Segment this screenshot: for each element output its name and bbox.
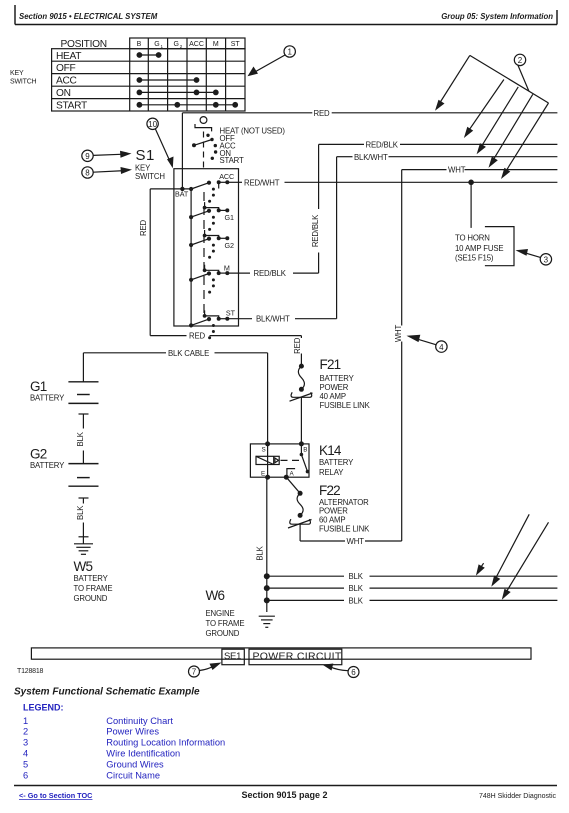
svg-text:LEGEND:: LEGEND: bbox=[23, 703, 64, 713]
svg-text:RED: RED bbox=[139, 219, 148, 236]
svg-text:10 AMP FUSE: 10 AMP FUSE bbox=[455, 244, 503, 253]
svg-text:BLK/WHT: BLK/WHT bbox=[354, 153, 388, 162]
svg-text:TO HORN: TO HORN bbox=[455, 233, 490, 242]
svg-text:BLK: BLK bbox=[256, 545, 265, 560]
svg-text:M: M bbox=[224, 263, 230, 272]
svg-text:F21: F21 bbox=[320, 357, 341, 372]
svg-text:E: E bbox=[261, 470, 265, 477]
svg-text:GROUND: GROUND bbox=[206, 629, 240, 638]
svg-text:KEY: KEY bbox=[10, 70, 24, 77]
svg-text:(SE15 F15): (SE15 F15) bbox=[455, 254, 494, 263]
svg-text:ACC: ACC bbox=[189, 41, 204, 48]
svg-text:HEAT: HEAT bbox=[56, 51, 81, 62]
svg-text:G2: G2 bbox=[30, 447, 47, 462]
svg-text:TO FRAME: TO FRAME bbox=[206, 619, 245, 628]
svg-text:Section 9015 • ELECTRICAL SYST: Section 9015 • ELECTRICAL SYSTEM bbox=[19, 12, 158, 21]
svg-text:G1: G1 bbox=[225, 213, 234, 222]
svg-text:K14: K14 bbox=[319, 443, 342, 458]
svg-text:BLK CABLE: BLK CABLE bbox=[168, 349, 209, 358]
svg-text:ENGINE: ENGINE bbox=[206, 609, 235, 618]
svg-text:ON: ON bbox=[56, 88, 71, 99]
svg-text:10: 10 bbox=[148, 120, 157, 129]
svg-text:POWER: POWER bbox=[320, 383, 349, 392]
svg-text:60 AMP: 60 AMP bbox=[319, 516, 345, 525]
svg-text:T128818: T128818 bbox=[17, 668, 44, 675]
svg-text:WHT: WHT bbox=[448, 166, 466, 175]
svg-text:BLK: BLK bbox=[76, 505, 85, 520]
svg-text:S1: S1 bbox=[136, 147, 155, 164]
svg-text:5: 5 bbox=[23, 759, 28, 769]
svg-text:G2: G2 bbox=[225, 241, 234, 250]
svg-text:BLK: BLK bbox=[76, 431, 85, 446]
svg-text:RED: RED bbox=[314, 109, 331, 118]
svg-text:START: START bbox=[56, 101, 87, 112]
svg-text:ST: ST bbox=[226, 308, 236, 317]
svg-text:3: 3 bbox=[23, 738, 28, 748]
svg-text:9: 9 bbox=[85, 152, 90, 161]
svg-text:RED: RED bbox=[189, 332, 206, 341]
svg-text:GROUND: GROUND bbox=[74, 594, 108, 603]
svg-text:FUSIBLE LINK: FUSIBLE LINK bbox=[319, 525, 370, 534]
svg-text:M: M bbox=[213, 41, 219, 48]
svg-text:Continuity Chart: Continuity Chart bbox=[106, 716, 173, 726]
svg-text:BATTERY: BATTERY bbox=[320, 374, 355, 383]
svg-text:3: 3 bbox=[544, 256, 549, 265]
svg-text:Routing Location Information: Routing Location Information bbox=[106, 738, 225, 748]
svg-text:BLK/WHT: BLK/WHT bbox=[256, 315, 290, 324]
svg-text:FUSIBLE LINK: FUSIBLE LINK bbox=[320, 401, 371, 410]
svg-text:POSITION: POSITION bbox=[61, 39, 107, 50]
svg-text:8: 8 bbox=[85, 169, 90, 178]
svg-text:POWER CIRCUIT: POWER CIRCUIT bbox=[253, 651, 342, 663]
svg-text:BLK: BLK bbox=[349, 572, 364, 581]
svg-text:BLK: BLK bbox=[349, 596, 364, 605]
svg-text:B: B bbox=[303, 446, 307, 453]
svg-text:G1: G1 bbox=[30, 379, 47, 394]
svg-text:Ground Wires: Ground Wires bbox=[106, 759, 164, 769]
svg-text:BATTERY: BATTERY bbox=[319, 458, 354, 467]
svg-text:WHT: WHT bbox=[347, 537, 365, 546]
svg-text:Group 05: System Information: Group 05: System Information bbox=[441, 12, 553, 21]
svg-text:RED/WHT: RED/WHT bbox=[244, 178, 280, 187]
svg-text:W6: W6 bbox=[206, 588, 225, 603]
svg-text:Section 9015 page 2: Section 9015 page 2 bbox=[241, 790, 327, 800]
svg-text:W5: W5 bbox=[74, 559, 93, 574]
svg-text:BATTERY: BATTERY bbox=[74, 574, 109, 583]
svg-text:S: S bbox=[262, 446, 266, 453]
svg-text:1: 1 bbox=[287, 48, 292, 57]
svg-text:748H Skidder Diagnostic: 748H Skidder Diagnostic bbox=[479, 793, 557, 800]
svg-text:6: 6 bbox=[351, 668, 356, 677]
svg-text:TO FRAME: TO FRAME bbox=[74, 584, 113, 593]
svg-text:ACC: ACC bbox=[219, 172, 234, 181]
svg-text:G: G bbox=[154, 41, 159, 48]
svg-text:RED/BLK: RED/BLK bbox=[311, 214, 320, 247]
svg-text:4: 4 bbox=[23, 749, 28, 759]
svg-text:WHT: WHT bbox=[394, 324, 403, 342]
svg-text:RED/BLK: RED/BLK bbox=[366, 140, 399, 149]
svg-text:POWER: POWER bbox=[319, 507, 348, 516]
svg-text:BATTERY: BATTERY bbox=[30, 394, 65, 403]
svg-text:Wire Identification: Wire Identification bbox=[106, 749, 180, 759]
svg-text:START: START bbox=[220, 156, 244, 165]
svg-text:RED: RED bbox=[293, 337, 302, 354]
svg-text:RELAY: RELAY bbox=[319, 468, 344, 477]
svg-text:SWITCH: SWITCH bbox=[135, 172, 165, 181]
svg-text:<- Go to Section TOC: <- Go to Section TOC bbox=[19, 791, 93, 800]
svg-text:40 AMP: 40 AMP bbox=[320, 392, 346, 401]
svg-text:BATTERY: BATTERY bbox=[30, 461, 65, 470]
svg-text:B: B bbox=[137, 41, 142, 48]
svg-text:Circuit Name: Circuit Name bbox=[106, 770, 160, 780]
svg-text:SWITCH: SWITCH bbox=[10, 79, 37, 86]
svg-text:ST: ST bbox=[231, 41, 241, 48]
svg-text:System Functional Schematic Ex: System Functional Schematic Example bbox=[14, 687, 200, 698]
svg-text:2: 2 bbox=[518, 56, 523, 65]
svg-text:G: G bbox=[173, 41, 178, 48]
svg-text:SE1: SE1 bbox=[224, 651, 241, 662]
svg-text:ACC: ACC bbox=[56, 76, 77, 87]
svg-text:6: 6 bbox=[23, 770, 28, 780]
svg-text:4: 4 bbox=[439, 343, 444, 352]
svg-text:RED/BLK: RED/BLK bbox=[254, 269, 287, 278]
svg-text:2: 2 bbox=[23, 727, 28, 737]
svg-text:OFF: OFF bbox=[56, 63, 76, 74]
svg-text:1: 1 bbox=[23, 716, 28, 726]
svg-text:7: 7 bbox=[192, 668, 197, 677]
svg-text:Power Wires: Power Wires bbox=[106, 727, 159, 737]
svg-text:F22: F22 bbox=[319, 483, 340, 498]
svg-text:BLK: BLK bbox=[349, 584, 364, 593]
